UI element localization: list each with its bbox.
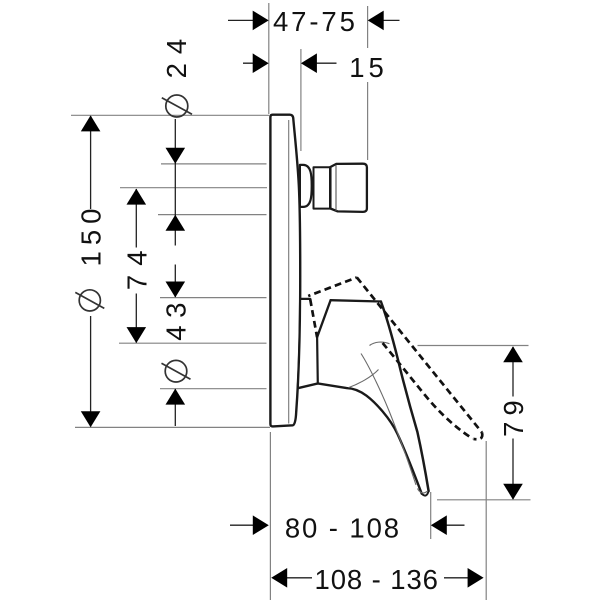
- ext line plate bottom: [75, 426, 270, 428]
- arrow 74 down: [127, 327, 147, 343]
- ext line sleeve top: [160, 297, 267, 299]
- knob cap: [330, 164, 367, 212]
- ext line lever raised tip: [485, 441, 487, 600]
- svg-text:74: 74: [122, 242, 153, 291]
- arrow 43 up: [166, 389, 186, 405]
- dim 74 shaft: [135, 189, 137, 343]
- arrow 108-136 right: [468, 568, 484, 588]
- ext line wall plane bottom: [269, 432, 271, 600]
- svg-text:79: 79: [498, 394, 529, 437]
- knob cylinder: [314, 167, 331, 208]
- extension lines: [71, 3, 531, 600]
- label 43 rotated: [161, 295, 192, 341]
- handle sleeve left edge: [298, 299, 300, 388]
- ext line 79 top: [418, 345, 529, 347]
- ext line 47-75 right: [367, 6, 369, 160]
- escutcheon plate: [270, 115, 300, 427]
- handle inner curve lower: [349, 370, 379, 388]
- svg-text:108 - 136: 108 - 136: [315, 564, 439, 595]
- dim 150 shaft: [90, 116, 92, 427]
- ext line knob axis: [120, 187, 267, 189]
- svg-text:24: 24: [161, 30, 192, 79]
- dimension texts: [75, 6, 529, 595]
- dashed raised handle: [308, 277, 482, 439]
- label 24 rotated: [161, 30, 192, 79]
- dashed lever lower edge: [383, 343, 473, 439]
- ext line sleeve bottom: [160, 388, 267, 390]
- lever left edge: [298, 384, 422, 494]
- ext line lever tip: [430, 492, 432, 539]
- label 150 rotated: [75, 203, 106, 267]
- arrow 74 up: [127, 189, 147, 205]
- diameter symbols: [75, 95, 192, 382]
- handle inner curve long: [361, 354, 416, 486]
- dashed lever upper edge: [357, 277, 482, 432]
- arrow 47-75 left: [253, 11, 269, 31]
- handle inner curve arc: [370, 342, 390, 345]
- svg-text:43: 43: [161, 295, 192, 341]
- handle cap top edge: [331, 300, 381, 301]
- arrow 108-136 left: [271, 568, 287, 588]
- diameter symbol 150: [79, 290, 100, 311]
- arrow 47-75 right: [368, 11, 384, 31]
- ext line plate top: [71, 114, 269, 116]
- dim 80-108 tails: [230, 524, 465, 526]
- handle sleeve top edge: [300, 298, 310, 300]
- ext line knob bottom: [158, 214, 267, 216]
- svg-text:150: 150: [75, 203, 106, 267]
- diameter symbol 43: [165, 360, 187, 382]
- dim 15 tails: [243, 62, 337, 64]
- plate face line: [288, 120, 290, 424]
- arrow 80-108 right: [431, 515, 447, 535]
- svg-text:80 - 108: 80 - 108: [285, 513, 401, 544]
- ext line knob top: [161, 163, 267, 165]
- dimension shafts: [91, 20, 513, 577]
- handle cap left edge: [317, 300, 331, 337]
- svg-text:15: 15: [349, 52, 388, 83]
- ext line handle axis: [119, 342, 267, 344]
- label 79 rotated: [498, 394, 529, 437]
- arrow 43 down: [166, 282, 186, 298]
- dimension arrows: [81, 11, 523, 588]
- arrow 79 down: [503, 484, 523, 500]
- dashed lever tip: [474, 432, 483, 439]
- handle cap left vertical: [316, 337, 319, 383]
- svg-text:47-75: 47-75: [273, 6, 358, 37]
- arrow 15 right: [301, 53, 317, 73]
- dim 43 shaft: [174, 265, 176, 427]
- ext line 15 right: [300, 49, 302, 151]
- arrow 150 up: [81, 115, 101, 131]
- dim 108-136 tails: [286, 577, 469, 579]
- lever tip: [422, 491, 429, 496]
- ext line 79 bottom: [437, 499, 531, 501]
- arrow 79 up: [503, 346, 523, 362]
- diameter symbol 24: [166, 95, 188, 117]
- arrow 150 down: [81, 411, 101, 427]
- dim 47-75 tails: [228, 19, 400, 21]
- ext line wall plane top: [268, 3, 270, 114]
- dim 79 shaft: [512, 347, 514, 499]
- dim 24 shaft: [174, 119, 176, 246]
- arrow 24 down: [166, 148, 186, 164]
- lever tip inner line: [418, 489, 428, 493]
- knob dome: [300, 165, 312, 207]
- arrow 15 left: [253, 53, 269, 73]
- dashed handle upper-left edge: [308, 277, 357, 296]
- arrow 24 up: [166, 215, 186, 231]
- knob cap inner line: [335, 165, 337, 211]
- label 74 rotated: [122, 242, 153, 291]
- lever right edge: [381, 302, 429, 492]
- dashed handle left edge: [310, 299, 317, 337]
- arrow 80-108 left: [253, 515, 269, 535]
- handle silhouette: [298, 299, 429, 496]
